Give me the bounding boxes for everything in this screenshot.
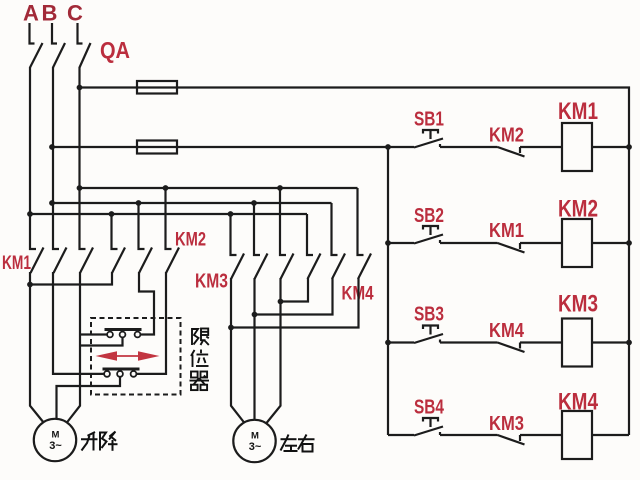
node bus C at KM3 — [277, 185, 283, 191]
wire top feed L1 to right rail — [80, 86, 631, 88]
wire KM2 to coil KM1 — [520, 146, 562, 148]
wire KM4 to coil KM3 — [520, 341, 562, 343]
upper limit contact 1 — [107, 332, 113, 338]
wire KM4 pole3 crossover — [231, 278, 359, 328]
wire KM1 pole1 to motor M1 — [30, 272, 44, 423]
node bus A at phase A — [27, 211, 33, 217]
node right rail row 1 — [626, 144, 632, 150]
svg-text:3~: 3~ — [49, 440, 62, 452]
wire KM4 pole1 crossover — [281, 278, 309, 302]
wire upper limit middle out — [80, 337, 123, 345]
node bus C at KM2 — [163, 185, 169, 191]
svg-text:A: A — [23, 1, 39, 26]
svg-text:KM2: KM2 — [558, 196, 598, 223]
left rail — [387, 147, 389, 435]
bus L2 phase B — [52, 202, 332, 204]
svg-text:KM4: KM4 — [489, 320, 525, 342]
svg-text:KM1: KM1 — [489, 220, 524, 242]
node bus B at phase B — [49, 200, 55, 206]
node B-FU2 tap — [49, 144, 55, 150]
wire rail to SB2 — [388, 242, 414, 244]
svg-text:KM3: KM3 — [489, 413, 524, 435]
node left rail row 2 — [385, 240, 391, 246]
svg-text:M: M — [251, 431, 259, 442]
upper limit contact 2 — [120, 332, 126, 338]
node right rail row 2 — [626, 240, 632, 246]
limit switch enclosure — [91, 318, 181, 395]
coil KM3 — [562, 319, 592, 367]
upper limit contact 3 — [135, 332, 141, 338]
wire phase A drop — [29, 67, 31, 215]
wire phase B drop — [52, 67, 54, 204]
wire tap to upper limit left — [80, 333, 109, 335]
coil KM4 — [562, 411, 592, 459]
wire KM3 pole2 to motor M2 — [253, 278, 255, 420]
wire KM2 pole3 to lower limit right — [136, 272, 167, 374]
wire control feed to SB1 — [52, 146, 414, 148]
disconnect switch QA pole C — [78, 23, 91, 68]
contactor KM1 pole 1 — [30, 214, 44, 273]
contactor KM2 pole 1 — [112, 214, 126, 273]
lower limit contact 2 — [117, 371, 123, 377]
contactor KM3 pole 1 — [231, 214, 245, 279]
svg-text:KM2: KM2 — [175, 230, 206, 251]
pushbutton SB3 — [414, 326, 443, 344]
svg-text:KM1: KM1 — [558, 98, 598, 125]
wire KM1 pole3 to motor M1 right lead — [67, 272, 81, 423]
wire SB4 to KM3 contact — [440, 434, 498, 436]
motion arrow — [96, 351, 160, 361]
svg-text:KM3: KM3 — [558, 291, 598, 318]
wire coil KM4 to right rail — [592, 434, 629, 436]
contactor KM1 pole 3 — [80, 188, 94, 273]
contactor KM4 pole 3 — [358, 188, 372, 279]
node bus A at KM3 — [228, 211, 234, 217]
upper limit bridge bar — [105, 328, 142, 331]
node bus C at phase C — [77, 185, 83, 191]
contactor KM1 pole 2 — [53, 203, 67, 273]
node bus B at KM2 — [136, 200, 142, 206]
node left rail row 3 — [385, 340, 391, 346]
node left rail row 1 — [385, 144, 391, 150]
contactor KM4 pole 1 — [307, 214, 321, 279]
contact KM4 NC — [498, 343, 525, 353]
contact KM2 NC — [498, 147, 525, 157]
wire SB2 to KM1 contact — [440, 242, 498, 244]
node right rail row 3 — [626, 340, 632, 346]
wire coil KM3 to right rail — [592, 341, 629, 343]
contact KM3 NC — [498, 435, 525, 445]
lower limit contact 1 — [104, 371, 110, 377]
fuse FU1 — [137, 81, 177, 94]
contactor KM3 pole 2 — [254, 203, 268, 279]
wire SB3 to KM4 contact — [440, 341, 498, 343]
disconnect switch QA pole B — [52, 23, 65, 68]
label 升降 (hoist motor) — [81, 432, 118, 451]
lower limit bridge bar — [103, 368, 140, 371]
pushbutton SB2 — [414, 226, 443, 244]
contactor KM3 pole 3 — [280, 188, 294, 279]
svg-text:QA: QA — [100, 37, 130, 63]
label 左右 (traverse motor) — [281, 435, 315, 452]
svg-text:M: M — [52, 430, 60, 441]
svg-text:KM2: KM2 — [489, 125, 524, 147]
wire KM3 pole1 to motor M2 — [231, 278, 245, 423]
node KM4 tie 2 — [252, 312, 258, 318]
label 限位器 (limit switch) — [190, 328, 210, 390]
contactor KM2 pole 2 — [139, 203, 153, 273]
wire rail to SB4 — [388, 434, 414, 436]
fuse FU2 — [137, 141, 177, 154]
pushbutton SB4 — [414, 418, 443, 436]
wire KM1 pole2 to lower limit contact — [53, 272, 104, 374]
svg-text:SB4: SB4 — [414, 397, 445, 419]
svg-text:B: B — [42, 1, 58, 26]
node bus A at KM2 — [109, 211, 115, 217]
pushbutton SB1 — [414, 130, 443, 148]
lower limit contact 3 — [131, 371, 137, 377]
node KM4 tie 3 — [278, 299, 284, 305]
bus L3 phase A — [30, 213, 307, 215]
svg-text:KM3: KM3 — [195, 271, 228, 293]
bus L1 phase C — [80, 187, 358, 189]
wire KM1 to coil KM2 — [520, 242, 562, 244]
svg-text:SB2: SB2 — [414, 205, 444, 227]
wire KM4 pole2 crossover — [255, 278, 333, 315]
svg-text:3~: 3~ — [249, 441, 262, 453]
wire rail to SB3 — [388, 341, 414, 343]
node KM2 tie on phase A lead — [27, 282, 33, 288]
svg-text:KM4: KM4 — [558, 389, 599, 416]
wire phase C drop — [78, 67, 80, 189]
svg-text:SB3: SB3 — [414, 304, 444, 326]
motor M2 — [233, 420, 275, 462]
contact KM1 NC — [498, 243, 525, 253]
contactor KM4 pole 2 — [332, 203, 346, 279]
coil KM2 — [562, 219, 592, 267]
svg-text:KM1: KM1 — [2, 253, 31, 274]
svg-text:SB1: SB1 — [414, 109, 444, 131]
node bus B at KM3 — [251, 200, 257, 206]
disconnect switch QA pole A — [30, 23, 43, 68]
wire coil KM2 to right rail — [592, 242, 629, 244]
right rail — [628, 87, 630, 436]
wire lower limit middle out to motor M1 — [57, 377, 121, 420]
svg-text:C: C — [67, 1, 83, 26]
coil KM1 — [562, 123, 592, 171]
motor M1 — [34, 419, 76, 461]
wire KM3 to coil KM4 — [520, 434, 562, 436]
wire KM2 pole2 to upper limit right — [139, 272, 154, 335]
node KM4 tie 1 — [228, 325, 234, 331]
contactor KM2 pole 3 — [166, 188, 180, 273]
wire coil KM1 to right rail — [592, 146, 629, 148]
wire SB1 to KM2 contact — [440, 146, 498, 148]
node C-FU1 tap — [77, 85, 83, 91]
wire KM2 pole1 tie-back — [30, 272, 112, 285]
wire KM3 pole3 to motor M2 — [267, 278, 281, 423]
